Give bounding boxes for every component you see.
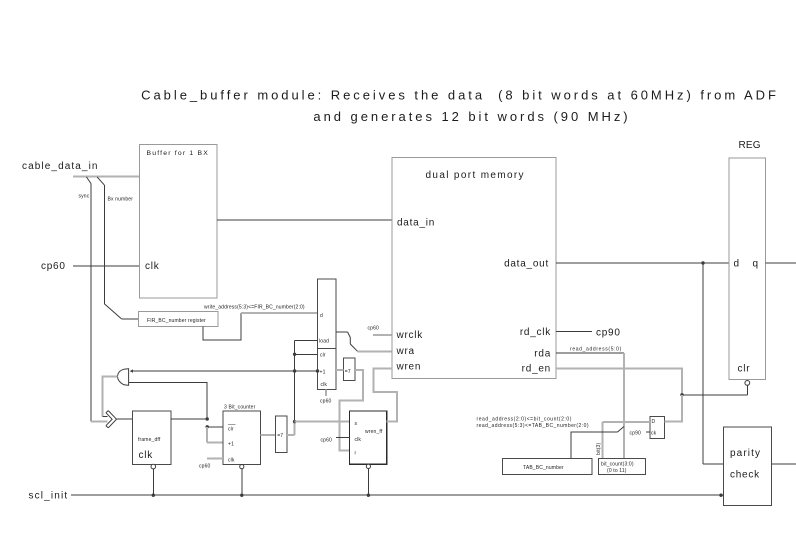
svg-text:d: d [320, 313, 323, 319]
svg-text:read_address(5:0): read_address(5:0) [570, 347, 622, 353]
svg-text:rd_en: rd_en [522, 364, 551, 375]
svg-text:clk: clk [321, 382, 328, 388]
wire clk stub + cp60 [325, 390, 327, 396]
wire wra [336, 331, 348, 333]
wire to REG clr bubble [682, 385, 747, 394]
svg-text:read_address(5:3)<=TAB_BC_numb: read_address(5:3)<=TAB_BC_number(2:0) [477, 423, 589, 429]
flip-flop bit3 dff [650, 416, 664, 438]
wire scl_init bus [71, 494, 724, 496]
svg-text:rd_clk: rd_clk [520, 327, 551, 338]
comparator =7 (read) [276, 416, 287, 453]
svg-text:cp90: cp90 [596, 328, 621, 339]
wire FIR_BC_number to write counter d [203, 313, 241, 340]
wire to counter +1 [207, 427, 223, 443]
svg-text:Buffer for 1 BX: Buffer for 1 BX [147, 150, 209, 157]
wire =7 to wren_ff r [340, 370, 364, 451]
svg-text:frame_dff: frame_dff [138, 437, 161, 443]
wren_ff bubble [366, 464, 370, 468]
wire Bx number tap diagonal [97, 177, 104, 185]
gate B chevron [106, 411, 117, 428]
wire cp90 stub [646, 431, 650, 433]
wire Bx number vertical [103, 185, 105, 304]
wire +1 long [131, 370, 318, 372]
svg-text:clk: clk [145, 261, 160, 272]
svg-text:scl_init: scl_init [29, 491, 69, 502]
switch diagonal [618, 427, 625, 433]
svg-text:wra: wra [396, 346, 415, 357]
svg-text:clk: clk [228, 458, 235, 464]
wire counter to bus [241, 469, 243, 496]
wire frame_dff clk to bus [152, 469, 154, 495]
wire cable_data_in bus [73, 175, 139, 177]
wire parity out [772, 463, 796, 465]
svg-text:data_in: data_in [397, 217, 435, 228]
wire sync tap diagonal [86, 177, 91, 184]
svg-text:d: d [734, 259, 740, 270]
svg-text:load: load [319, 339, 329, 345]
svg-text:clk: clk [139, 450, 154, 461]
svg-text:bit_count(3:0): bit_count(3:0) [601, 462, 634, 468]
svg-text:D: D [652, 419, 656, 425]
svg-text:FIR_BC_number register: FIR_BC_number register [147, 318, 206, 324]
flip-flop frame_dff [133, 411, 171, 465]
svg-text:wrclk: wrclk [396, 330, 424, 341]
svg-text:clk: clk [355, 437, 362, 443]
svg-text:parity: parity [730, 448, 761, 459]
svg-text:clr: clr [738, 364, 751, 375]
svg-text:clr: clr [228, 427, 234, 433]
svg-text:=7: =7 [345, 369, 351, 375]
svg-text:(0 to 11): (0 to 11) [607, 468, 627, 474]
comparator =7 (write) [343, 358, 355, 381]
wire counter to =7 [261, 434, 276, 436]
junction [293, 420, 296, 423]
wire rd_en [556, 368, 682, 394]
wire Bx number into register [121, 318, 138, 320]
svg-text:cp60: cp60 [199, 464, 211, 470]
wire data_out to REG [556, 262, 729, 264]
svg-text:r: r [355, 451, 357, 457]
REG clr bubble [745, 381, 750, 386]
wire load [295, 340, 318, 421]
wire sync to chevron [91, 421, 107, 423]
wire data_out drop to parity [703, 263, 724, 464]
counter 3 Bit_counter [223, 405, 260, 465]
register TAB_BC_number [502, 459, 592, 475]
svg-text:and generates 12 bit words (90: and generates 12 bit words (90 MHz) [313, 109, 630, 124]
frame_dff clk bubble [151, 464, 156, 469]
wire wrclk stub [373, 334, 392, 336]
wire chevron out to frame_dff [117, 418, 133, 420]
svg-text:wren: wren [396, 362, 422, 373]
svg-text:sync: sync [79, 194, 90, 200]
dual port memory [392, 158, 556, 379]
register REG [729, 140, 766, 379]
svg-text:wren_ff: wren_ff [365, 429, 383, 435]
register FIR_BC_number [138, 311, 218, 326]
block parity check [724, 427, 772, 506]
wire bit(3) [602, 422, 650, 459]
svg-text:write_address(5:3)<=FIR_BC_num: write_address(5:3)<=FIR_BC_number(2:0) [204, 305, 305, 311]
counter clk stub + cp60 [207, 457, 223, 459]
wire s input [295, 421, 350, 423]
wire sync vertical [90, 184, 92, 422]
wire rd_clk, cp90 [556, 331, 592, 333]
svg-text:s: s [355, 421, 358, 427]
wire buffer out to data_in [217, 219, 392, 221]
svg-text:+1: +1 [228, 442, 234, 448]
gate A (left pointing) [117, 369, 128, 386]
wire dff out [664, 395, 682, 422]
block Buffer for 1 BX [139, 144, 217, 298]
svg-text:rda: rda [534, 348, 551, 359]
svg-text:cp60: cp60 [321, 438, 333, 444]
svg-text:clr: clr [320, 353, 326, 359]
svg-text:bit(3): bit(3) [596, 443, 602, 455]
wire to counter clr [207, 426, 223, 428]
svg-text:dual port memory: dual port memory [426, 170, 525, 181]
svg-text:q: q [753, 259, 759, 270]
svg-text:+1: +1 [320, 369, 326, 375]
wire gate A output to chevron [102, 377, 117, 417]
wire wren_ff out to wren [374, 368, 398, 421]
wire wren_ff to bus [367, 469, 369, 496]
wire gate A input 2 [129, 382, 208, 419]
gate A input arrow [130, 369, 133, 372]
wire cp60 to buffer clk [73, 265, 139, 267]
wren_ff clk wire + cp60 [336, 437, 350, 439]
svg-text:check: check [730, 470, 760, 481]
svg-text:REG: REG [739, 140, 761, 151]
write address counter (tall box) [318, 279, 337, 390]
flip-flop wren_ff [350, 411, 387, 464]
wire REG q out [766, 262, 796, 264]
wire counter to =7 [336, 369, 343, 371]
svg-text:cable_data_in: cable_data_in [22, 161, 99, 172]
svg-text:cp60: cp60 [320, 399, 332, 405]
wire frame_dff q [171, 418, 207, 420]
svg-text:Bx number: Bx number [108, 197, 134, 203]
wire TAB to switch [571, 432, 618, 459]
svg-text:cp60: cp60 [41, 261, 66, 272]
svg-text:data_out: data_out [504, 259, 549, 270]
wire =7 out to s-line [287, 422, 295, 435]
counter clk bubble [240, 465, 244, 469]
svg-text:TAB_BC_number: TAB_BC_number [523, 465, 564, 471]
wire clr branch [295, 353, 318, 355]
svg-text:Cable_buffer module: Receives: Cable_buffer module: Receives the data (… [141, 88, 779, 103]
wire Bx number diagonal to register [104, 304, 121, 319]
svg-text:cp90: cp90 [630, 431, 642, 437]
svg-text:ck: ck [651, 431, 657, 437]
junction [293, 353, 296, 356]
svg-text:cp60: cp60 [368, 326, 380, 332]
counter bit_count [599, 459, 646, 475]
wire rda / read_address [556, 352, 624, 354]
svg-text:3 Bit_counter: 3 Bit_counter [224, 405, 256, 411]
svg-text:=7: =7 [277, 433, 283, 439]
svg-text:read_address(2:0)<=bit_count(2: read_address(2:0)<=bit_count(2:0) [477, 417, 572, 423]
